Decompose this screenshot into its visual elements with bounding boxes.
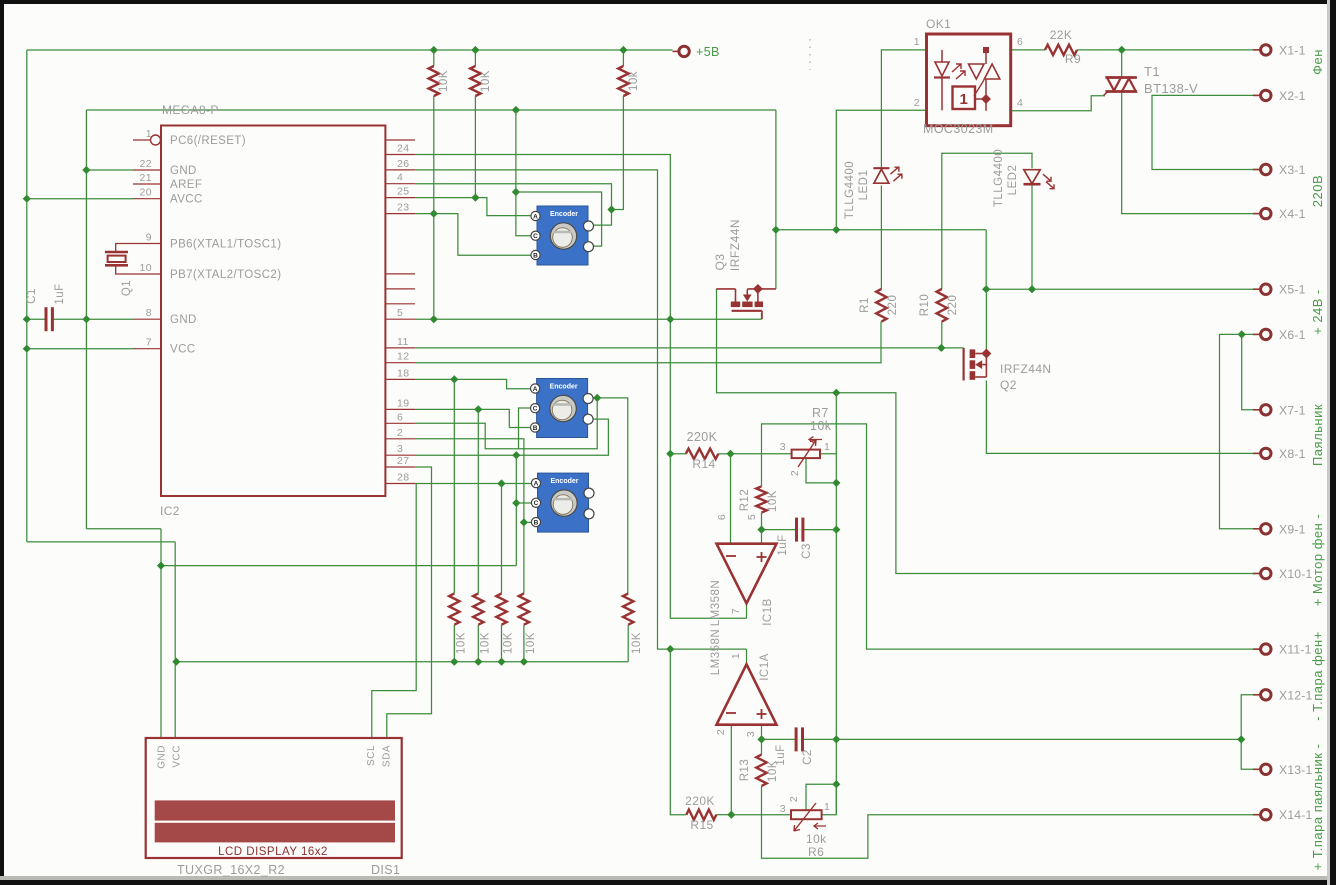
svg-text:25: 25 <box>397 186 409 198</box>
label R10 <box>919 294 931 317</box>
resistor R15 <box>686 810 716 820</box>
wire X12X13 <box>1237 695 1261 770</box>
label C3 value <box>777 534 789 555</box>
svg-text:T1: T1 <box>1144 64 1160 79</box>
label pullup #4 <box>525 632 537 654</box>
svg-text:10K: 10K <box>503 632 515 654</box>
wire C1 left <box>27 318 46 320</box>
label Q2 <box>1000 378 1017 392</box>
svg-text:X10-1: X10-1 <box>1279 567 1313 581</box>
wire pin4 net <box>415 96 623 225</box>
encoder module 3 <box>531 473 594 532</box>
wire +5V rail <box>27 50 673 738</box>
svg-text:21: 21 <box>140 172 152 184</box>
wire pin12 net <box>415 322 881 363</box>
svg-text:R13: R13 <box>739 759 751 782</box>
svg-text:PB6(XTAL1/TOSC1): PB6(XTAL1/TOSC1) <box>170 239 281 251</box>
svg-text:R1: R1 <box>859 297 871 313</box>
wire pin2 net <box>415 439 531 527</box>
svg-text:220K: 220K <box>685 794 715 808</box>
wire IC1A in3 <box>761 725 763 740</box>
svg-text:10k: 10k <box>628 71 640 91</box>
svg-text:A: A <box>534 481 539 488</box>
label C2 <box>802 749 814 765</box>
capacitor C2 <box>796 727 802 751</box>
terminal +5B <box>673 46 690 56</box>
svg-text:1: 1 <box>824 801 830 813</box>
wire C3 row <box>757 513 836 534</box>
svg-text:IC1B: IC1B <box>762 598 774 626</box>
svg-text:3: 3 <box>780 441 786 453</box>
svg-text:X11-1: X11-1 <box>1279 643 1312 657</box>
wire OK1 pin2 <box>836 110 926 230</box>
net label Тпара паяльник <box>1310 744 1325 871</box>
label OK1 <box>926 17 951 31</box>
fold mark dots <box>809 39 811 70</box>
svg-text:6: 6 <box>1017 36 1023 48</box>
label R7 value <box>810 419 832 433</box>
label R6 value <box>806 832 827 846</box>
label MEGA8-P <box>162 103 219 117</box>
junction pin24-pin5 <box>666 315 674 323</box>
label pullup #3 <box>503 632 515 654</box>
wire LED2 bottom <box>1031 186 1033 290</box>
resistor 10K c <box>618 66 628 96</box>
svg-text:BT138-V: BT138-V <box>1144 81 1198 96</box>
LED LED2 <box>1024 170 1055 189</box>
svg-text:+ Мотор фен -: + Мотор фен - <box>1310 514 1325 607</box>
connector X2-1 <box>1253 89 1306 103</box>
wire pin23 net <box>415 209 531 255</box>
svg-text:GND: GND <box>170 314 197 326</box>
label R10 value <box>947 295 959 316</box>
svg-text:2: 2 <box>789 470 801 476</box>
junction C1 <box>23 315 31 323</box>
svg-text:R9: R9 <box>1065 52 1081 66</box>
svg-text:TUXGR_16X2_R2: TUXGR_16X2_R2 <box>177 863 285 877</box>
svg-text:10K: 10K <box>480 70 492 92</box>
svg-text:10k: 10k <box>806 832 827 846</box>
label Q3 <box>713 253 727 270</box>
label MOC3023M <box>923 122 994 136</box>
svg-text:5: 5 <box>397 307 403 319</box>
svg-text:X13-1: X13-1 <box>1279 763 1313 777</box>
net label Мотор фен <box>1310 514 1325 607</box>
resistor R10 <box>937 289 947 322</box>
label 10K c <box>628 71 640 91</box>
svg-text:R7: R7 <box>812 406 829 420</box>
svg-text:Q3: Q3 <box>713 253 727 270</box>
svg-text:AVCC: AVCC <box>170 194 203 206</box>
svg-text:TLLG4400: TLLG4400 <box>844 161 856 219</box>
label pullup #1 <box>455 632 467 654</box>
connector X10-1 <box>1253 567 1313 581</box>
wire LED1-R1 <box>880 186 882 290</box>
svg-text:X3-1: X3-1 <box>1279 163 1306 177</box>
wire C2 row <box>757 735 1241 743</box>
label LED2 part <box>993 149 1005 207</box>
svg-text:10K: 10K <box>631 632 643 654</box>
wire pin26 net <box>415 170 747 649</box>
label Q3 part <box>728 219 742 271</box>
wire T1 vert <box>1122 50 1261 214</box>
wire AVCC <box>27 198 133 200</box>
svg-text:1: 1 <box>730 653 742 659</box>
wire X8 row <box>986 381 1261 454</box>
wire R6 wiper <box>806 784 836 810</box>
svg-text:IRFZ44N: IRFZ44N <box>728 219 742 271</box>
encoder module 2 <box>531 379 594 438</box>
svg-text:2: 2 <box>397 427 403 439</box>
svg-text:9: 9 <box>146 232 152 244</box>
resistor pullup 10K #2 <box>473 594 483 625</box>
net label +24В <box>1310 289 1325 335</box>
label Q2 part <box>1000 362 1051 376</box>
label IC2 <box>160 504 180 518</box>
svg-text:X5-1: X5-1 <box>1279 283 1306 297</box>
svg-text:Паяльник: Паяльник <box>1310 404 1325 466</box>
label R15 value <box>685 794 715 808</box>
wire X2X3 <box>1152 95 1261 169</box>
svg-text:MOC3023M: MOC3023M <box>923 122 994 136</box>
label pullup #5 <box>631 632 643 654</box>
svg-text:C2: C2 <box>802 749 814 765</box>
svg-text:Q1: Q1 <box>121 280 133 296</box>
LCD display DIS1 <box>146 738 402 858</box>
svg-text:R6: R6 <box>808 845 824 859</box>
svg-text:B: B <box>533 252 538 259</box>
svg-text:10K: 10K <box>525 632 537 654</box>
svg-text:24: 24 <box>397 143 409 155</box>
svg-text:19: 19 <box>397 397 409 409</box>
connector X9-1 <box>1253 522 1306 536</box>
wire lcd row <box>157 561 516 569</box>
svg-text:220В: 220В <box>1310 175 1325 207</box>
wire IC1B in6 <box>730 454 732 544</box>
svg-text:18: 18 <box>397 367 409 379</box>
optocoupler OK1 <box>927 34 1011 126</box>
svg-text:220: 220 <box>887 295 899 316</box>
wire pin19 net <box>415 405 531 427</box>
svg-text:- Т.пара фен+: - Т.пара фен+ <box>1310 631 1325 721</box>
wire ctrl rail <box>835 393 837 814</box>
wire R15 row <box>716 811 791 819</box>
IC1B pin numbers <box>716 514 758 614</box>
svg-text:MEGA8-P: MEGA8-P <box>162 103 219 117</box>
svg-text:X7-1: X7-1 <box>1279 403 1306 417</box>
connector X14-1 <box>1253 808 1313 822</box>
wire enc1 C net <box>512 110 531 236</box>
svg-text:AREF: AREF <box>170 179 202 191</box>
svg-text:6: 6 <box>397 411 403 423</box>
svg-text:3: 3 <box>745 731 757 737</box>
wire IC1A out1 <box>746 649 748 664</box>
svg-text:SCL: SCL <box>366 745 377 766</box>
potentiometer R7 <box>792 437 822 468</box>
label C1 value <box>54 283 66 304</box>
svg-text:Encoder: Encoder <box>550 211 578 218</box>
crystal Q1 <box>105 252 128 265</box>
svg-text:Encoder: Encoder <box>550 384 578 391</box>
resistor pullup 10K #4 <box>519 594 529 625</box>
svg-text:26: 26 <box>397 158 409 170</box>
label TUXGR <box>177 863 285 877</box>
wire Q3 drain net <box>772 110 780 289</box>
wire enc1 btn <box>516 192 602 246</box>
svg-text:X8-1: X8-1 <box>1279 447 1306 461</box>
wire R7 pin1 <box>820 453 836 455</box>
label C2 value <box>775 744 787 765</box>
svg-text:OK1: OK1 <box>926 17 951 31</box>
IC U-IC2 MEGA8-P box <box>161 126 385 497</box>
net label Тпара фен <box>1310 631 1325 721</box>
label R1 <box>859 297 871 313</box>
svg-text:C: C <box>533 406 538 413</box>
svg-text:Фен: Фен <box>1310 49 1325 75</box>
svg-text:20: 20 <box>140 187 152 199</box>
wire X5 row <box>982 285 1261 293</box>
junction ctrl rail <box>832 479 840 789</box>
wire T1 gate <box>1011 96 1105 111</box>
label pullup #2 <box>479 632 491 654</box>
svg-text:1uF: 1uF <box>777 534 789 555</box>
svg-text:1: 1 <box>824 441 830 453</box>
label 10K b <box>480 70 492 92</box>
wire IC1B out7 <box>746 603 748 618</box>
wire fb IC1A <box>670 649 686 815</box>
wire pin25 net <box>415 193 531 215</box>
connector X11-1 <box>1253 643 1312 657</box>
wire XTAL1 <box>116 244 133 253</box>
svg-text:VCC: VCC <box>170 344 195 356</box>
svg-text:TLLG4400: TLLG4400 <box>993 149 1005 207</box>
wire R12 row X11 <box>762 424 1262 649</box>
svg-text:10K: 10K <box>767 490 779 512</box>
wire R6 pin1 <box>822 784 837 815</box>
wire pullup4 vert <box>523 522 525 593</box>
svg-text:+5B: +5B <box>696 45 720 59</box>
svg-text:3: 3 <box>397 443 403 455</box>
svg-text:A: A <box>533 386 538 393</box>
svg-text:X2-1: X2-1 <box>1279 89 1306 103</box>
wire Q3 source <box>761 313 763 319</box>
net label Фен <box>1310 49 1325 75</box>
svg-text:2: 2 <box>914 97 920 109</box>
connector X6-1 <box>1253 328 1306 342</box>
label R1 value <box>887 295 899 316</box>
svg-text:220: 220 <box>947 295 959 316</box>
junction pullup rail <box>172 658 528 666</box>
svg-text:R15: R15 <box>690 818 713 832</box>
wire pin24 net <box>415 155 747 619</box>
svg-text:5: 5 <box>746 514 758 520</box>
wire rail229 <box>776 226 986 234</box>
svg-text:R12: R12 <box>739 489 751 512</box>
connector X3-1 <box>1253 163 1306 177</box>
resistor R9 <box>1045 45 1077 55</box>
wire Q3 gate row <box>717 289 1262 574</box>
label IC1B lm <box>710 580 722 626</box>
capacitor C1 <box>46 307 52 331</box>
label R14 <box>692 457 715 471</box>
capacitor C3 <box>797 518 803 542</box>
svg-text:IRFZ44N: IRFZ44N <box>1000 362 1051 376</box>
label LED1 <box>858 170 870 201</box>
svg-text:C1: C1 <box>26 288 38 304</box>
svg-text:B: B <box>533 425 538 432</box>
label R14 value <box>687 430 718 444</box>
wire GND rail <box>86 110 776 738</box>
svg-text:PB7(XTAL2/TOSC2): PB7(XTAL2/TOSC2) <box>170 269 281 281</box>
wire X6 net <box>1220 330 1262 529</box>
net label Паяльник <box>1310 404 1325 466</box>
label IC1A <box>759 653 771 681</box>
wire SCL <box>372 484 416 739</box>
OK1 pin numbers <box>914 36 1024 109</box>
svg-text:27: 27 <box>397 455 409 467</box>
wire pullupC <box>622 50 624 66</box>
svg-text:4: 4 <box>1017 97 1023 109</box>
resistor 10K a <box>429 66 439 96</box>
wire R13 top <box>761 739 763 754</box>
LCD pin names <box>157 745 393 769</box>
connector X13-1 <box>1253 763 1313 777</box>
svg-text:IC2: IC2 <box>160 504 180 518</box>
resistor pullup 10K #1 <box>449 594 459 625</box>
resistor pullup 10K #5 <box>623 594 633 625</box>
wire R7 pin3 row <box>670 450 791 458</box>
resistor R13 <box>756 755 766 786</box>
wire pin6 net <box>415 398 597 449</box>
svg-text:GND: GND <box>170 165 197 177</box>
wire VCC pin7 <box>27 348 133 350</box>
wire pullup1 vert <box>453 379 455 593</box>
svg-text:4: 4 <box>397 172 403 184</box>
svg-text:10K: 10K <box>438 70 450 92</box>
op-amp IC1A <box>717 664 777 724</box>
junction GND taps <box>82 106 520 323</box>
junction IC1A out <box>666 645 674 653</box>
svg-text:22K: 22K <box>1050 28 1073 42</box>
svg-text:VCC: VCC <box>172 745 183 768</box>
svg-text:X1-1: X1-1 <box>1279 43 1306 57</box>
svg-text:1: 1 <box>146 128 152 140</box>
wire pin27 SDA <box>387 467 432 738</box>
svg-text:Encoder: Encoder <box>550 478 578 485</box>
wire pullup bottoms <box>454 625 524 662</box>
label R12 <box>739 489 751 512</box>
label R9 <box>1065 52 1081 66</box>
label R15 <box>690 818 713 832</box>
svg-text:1: 1 <box>914 36 920 48</box>
svg-text:+ Т.пара паяльник -: + Т.пара паяльник - <box>1310 744 1325 871</box>
wire R7 wiper <box>806 458 836 483</box>
svg-text:X9-1: X9-1 <box>1279 522 1306 536</box>
svg-text:220K: 220K <box>687 430 718 444</box>
IC1A pin numbers <box>715 653 757 737</box>
R6 pin numbers <box>780 796 831 815</box>
svg-text:B: B <box>534 520 539 527</box>
svg-text:22: 22 <box>140 158 152 170</box>
connector X12-1 <box>1253 688 1313 702</box>
connector X4-1 <box>1253 207 1306 221</box>
junction R14 left <box>666 450 674 458</box>
svg-text:LM358N: LM358N <box>710 629 722 675</box>
svg-text:28: 28 <box>397 472 409 484</box>
connector X8-1 <box>1253 447 1306 461</box>
svg-text:23: 23 <box>397 202 409 214</box>
wire LED2 top net <box>942 153 1032 289</box>
label R13 <box>739 759 751 782</box>
IC2 right pins <box>385 140 415 484</box>
svg-text:LED1: LED1 <box>858 170 870 201</box>
net label 220В <box>1310 175 1325 207</box>
svg-text:LED2: LED2 <box>1007 165 1019 196</box>
svg-text:IC1A: IC1A <box>759 653 771 681</box>
LED LED1 <box>873 167 902 183</box>
svg-text:X4-1: X4-1 <box>1279 207 1306 221</box>
resistor R1 <box>876 289 886 322</box>
svg-text:10: 10 <box>140 262 152 274</box>
label LED2 <box>1007 165 1019 196</box>
label R13 value <box>767 760 779 782</box>
label C1 <box>26 288 38 304</box>
label 10K a <box>438 70 450 92</box>
svg-text:X12-1: X12-1 <box>1279 688 1313 702</box>
wire enc2 C <box>519 408 532 449</box>
IC2 left pins <box>133 128 281 356</box>
transistor Q2 <box>964 348 992 381</box>
label DIS1 <box>371 863 400 877</box>
wire pin11 net <box>415 344 964 352</box>
svg-text:1uF: 1uF <box>54 283 66 304</box>
svg-text:2: 2 <box>715 729 727 735</box>
svg-text:PC6(/RESET): PC6(/RESET) <box>170 135 246 147</box>
wire pullupB <box>474 50 476 198</box>
wire XTAL2 <box>116 265 133 274</box>
svg-text:1uF: 1uF <box>775 744 787 765</box>
svg-text:8: 8 <box>146 307 152 319</box>
label T1 <box>1144 64 1160 79</box>
svg-text:7: 7 <box>730 608 742 614</box>
junction +5V taps <box>23 46 628 353</box>
resistor R12 <box>756 486 766 512</box>
label IC1B <box>762 598 774 626</box>
svg-text:6: 6 <box>716 514 728 520</box>
svg-text:+ 24В -: + 24В - <box>1310 289 1325 335</box>
wire pin5 row <box>415 315 762 323</box>
wire X1 row <box>1011 46 1261 54</box>
wire C1 right <box>53 318 134 320</box>
svg-text:X14-1: X14-1 <box>1279 808 1313 822</box>
triac T1 <box>1104 78 1137 96</box>
svg-text:A: A <box>533 213 538 220</box>
wire enc3 C <box>516 502 531 504</box>
svg-text:3: 3 <box>780 803 786 815</box>
svg-text:R14: R14 <box>692 457 715 471</box>
svg-text:GND: GND <box>157 745 168 769</box>
svg-text:C: C <box>534 500 539 507</box>
svg-text:7: 7 <box>146 337 152 349</box>
resistor 10K b <box>470 66 480 96</box>
connector X7-1 <box>1253 403 1306 417</box>
svg-text:R10: R10 <box>919 294 931 317</box>
wire pin28 net <box>415 479 531 487</box>
svg-text:10K: 10K <box>455 632 467 654</box>
wire pin3 net <box>415 419 608 459</box>
wire gnd drop3 <box>512 455 520 565</box>
svg-text:1: 1 <box>960 91 968 108</box>
